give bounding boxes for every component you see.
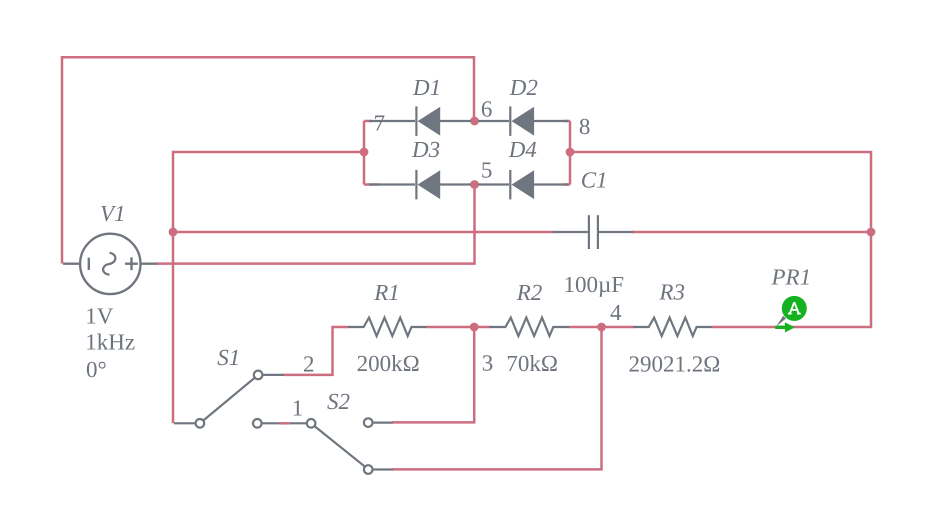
wire stub node7 top corner: [364, 120, 372, 123]
svg-text:5: 5: [481, 157, 493, 182]
wire bridge left edge node 7: [363, 121, 366, 185]
wire node3 stub to R2: [474, 326, 490, 329]
probe PR1: [775, 296, 807, 333]
wire node5 down to V1+: [157, 185, 475, 264]
svg-text:100µF: 100µF: [564, 272, 625, 297]
svg-text:R2: R2: [516, 280, 543, 305]
wire stub node8 top corner: [563, 120, 570, 123]
svg-text:6: 6: [481, 96, 493, 121]
svg-text:D2: D2: [509, 75, 538, 100]
wire node2 from S1 throw up to R1: [284, 327, 349, 375]
svg-text:4: 4: [610, 300, 622, 325]
junction node 6: [470, 117, 479, 126]
svg-text:200kΩ: 200kΩ: [357, 351, 420, 376]
junction capacitor row right: [867, 228, 876, 237]
wire top loop V1- to node 6: [62, 57, 474, 263]
svg-text:V1: V1: [100, 201, 126, 226]
svg-text:R1: R1: [373, 280, 400, 305]
svg-text:D3: D3: [411, 137, 440, 162]
svg-text:0°: 0°: [86, 357, 107, 382]
wire node1 between S1 and S2: [279, 422, 290, 425]
svg-text:C1: C1: [581, 168, 608, 193]
svg-text:1: 1: [292, 395, 304, 420]
junction capacitor row left: [169, 228, 178, 237]
diode D1: [369, 106, 471, 135]
diode D3: [369, 170, 471, 200]
switch S2: [290, 418, 393, 474]
junction node 5: [470, 180, 479, 189]
svg-text:70kΩ: 70kΩ: [506, 351, 558, 376]
wire R2 to node4: [569, 326, 602, 329]
svg-text:D1: D1: [412, 75, 441, 100]
svg-text:29021.2Ω: 29021.2Ω: [629, 352, 721, 377]
wire stub node7 bottom corner: [364, 183, 379, 186]
svg-text:2: 2: [303, 352, 315, 377]
wire capacitor row left: [173, 231, 554, 234]
wire bridge right edge node 8: [569, 121, 572, 185]
resistor R2: [489, 318, 569, 336]
wire node8 to right edge down to probe row: [570, 152, 871, 327]
wire node4 stub to R3: [602, 326, 635, 329]
svg-text:3: 3: [482, 350, 494, 375]
junction bridge left: [360, 148, 369, 157]
wire node3 down to S2 throw1: [392, 327, 474, 422]
svg-text:R3: R3: [658, 280, 685, 305]
svg-text:S1: S1: [217, 345, 240, 370]
diode D4: [478, 170, 568, 200]
junction node 3: [470, 323, 479, 332]
svg-text:1kHz: 1kHz: [85, 330, 135, 355]
resistor R1: [348, 318, 427, 336]
resistor R3: [633, 318, 712, 336]
svg-text:S2: S2: [327, 389, 350, 414]
wire stub node8 bottom corner: [563, 183, 570, 186]
wire node4 down to S2 throw2: [392, 327, 602, 469]
svg-text:PR1: PR1: [771, 265, 812, 290]
svg-text:8: 8: [579, 114, 591, 139]
junction node 4: [597, 323, 606, 332]
wire capacitor row right: [632, 231, 871, 234]
wire node7 to left vertical down to S1: [173, 152, 364, 423]
svg-text:D4: D4: [508, 137, 537, 162]
diode D2: [478, 106, 568, 135]
svg-text:7: 7: [374, 110, 386, 135]
switch S1: [174, 371, 284, 428]
wire R1 to node3: [426, 326, 474, 329]
voltage source V1: [63, 234, 157, 294]
junction bridge right: [566, 148, 575, 157]
capacitor C1: [553, 215, 633, 249]
svg-text:1V: 1V: [85, 303, 114, 328]
